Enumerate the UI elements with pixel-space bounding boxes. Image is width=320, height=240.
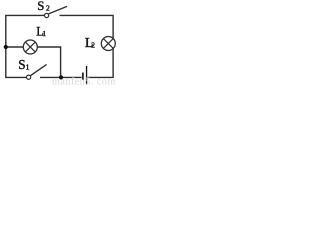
svg-text:1: 1 (26, 62, 30, 71)
lamp L2 cross (103, 39, 113, 49)
battery negative plate (short thick) (82, 73, 84, 81)
node A: junction dot left of L1 (4, 45, 8, 49)
wire: L2 bottom to bottom-right corner, left to battery (87, 49, 113, 78)
wire: node A to lamp L1 left (6, 46, 24, 48)
wire: lamp L1 right to corner and down to node B (37, 47, 60, 77)
svg-text:2: 2 (91, 41, 95, 50)
switch S1 hinge terminal (27, 75, 31, 79)
switch S2 hinge terminal (45, 13, 49, 17)
switch S2 blade (49, 6, 68, 13)
wire: top-left segment and left side down to bottom, to S1 (6, 15, 44, 77)
svg-text:S: S (37, 0, 44, 13)
battery positive plate (long thin) (86, 66, 87, 85)
lamp L1 cross (25, 42, 35, 52)
svg-text:manfen5. com: manfen5. com (52, 76, 116, 86)
svg-text:1: 1 (42, 29, 46, 38)
switch S1 blade (30, 64, 46, 75)
wire: top-right segment from S2 fixed contact to right corner, down to L2 top (60, 15, 114, 38)
wire: battery left plate to S1 right contact (40, 76, 82, 78)
node B: junction dot on bottom wire (59, 75, 63, 79)
svg-text:S: S (18, 57, 25, 72)
lamp L2 bulb circle (101, 37, 115, 51)
svg-text:2: 2 (46, 3, 50, 12)
lamp L1 bulb circle (23, 40, 37, 54)
